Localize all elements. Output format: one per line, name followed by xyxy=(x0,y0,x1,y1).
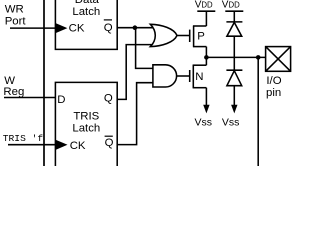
wire N source to VSS arrow xyxy=(205,88,207,106)
svg-text:Q: Q xyxy=(105,137,114,149)
svg-text:D: D xyxy=(57,94,65,106)
wire P drain to output node xyxy=(205,47,207,58)
svg-text:pin: pin xyxy=(266,87,281,99)
wire diode D1 to rail crossing to diode D2 xyxy=(233,36,235,70)
transistor Q1 P-MOSFET xyxy=(190,26,207,47)
diode D1 triangle xyxy=(227,22,242,36)
VDD rail 1 xyxy=(197,10,215,12)
wire WR Port to CK xyxy=(10,27,55,29)
svg-text:N: N xyxy=(195,71,203,83)
svg-text:I/O: I/O xyxy=(266,75,281,87)
wire W Reg to D xyxy=(4,97,55,99)
diode D1 cathode bar xyxy=(226,21,242,23)
wire P source to VDD xyxy=(205,11,207,26)
junction dot output node xyxy=(204,55,209,60)
output rail to I/O pin xyxy=(206,56,265,58)
svg-text:P: P xyxy=(197,31,205,43)
clock wedge data latch CK xyxy=(55,23,67,34)
latch U2 TRIS Latch box (bottom cut off) xyxy=(55,82,117,166)
wire TRIS Q-bar to AND gate xyxy=(117,83,155,145)
svg-text:Vss: Vss xyxy=(195,116,213,128)
wire N drain to output node xyxy=(205,57,207,65)
svg-text:TRIS 'f: TRIS 'f xyxy=(3,133,44,144)
junction dot pin branch node xyxy=(256,55,261,60)
svg-text:Latch: Latch xyxy=(72,122,100,134)
diode D2 triangle xyxy=(227,71,242,86)
wire OR to P gate xyxy=(177,35,190,37)
svg-text:WR: WR xyxy=(5,4,24,16)
AND gate G2 xyxy=(153,65,177,87)
svg-text:Vss: Vss xyxy=(222,116,240,128)
svg-text:W: W xyxy=(4,75,15,87)
overline of TRIS latch Q-bar xyxy=(105,135,113,137)
overline of data latch Q-bar xyxy=(104,19,112,21)
diode D2 cathode bar xyxy=(226,69,242,71)
wire pin node to input buffer (cut off) xyxy=(257,57,259,166)
junction dot A (Q-bar node) xyxy=(133,25,138,30)
svg-text:Q: Q xyxy=(104,93,113,105)
svg-text:CK: CK xyxy=(70,140,86,152)
latch U1 Data Latch box (top cut off) xyxy=(55,0,117,49)
svg-text:CK: CK xyxy=(69,22,85,34)
wire TRIS f to CK xyxy=(8,144,55,146)
svg-text:Latch: Latch xyxy=(72,6,100,18)
wire VDD rail 2 to diode D1 xyxy=(233,11,235,22)
I/O pin symbol box xyxy=(266,47,291,72)
VSS arrowhead left xyxy=(203,105,209,114)
svg-text:Q: Q xyxy=(104,22,113,34)
data bus line xyxy=(43,0,45,166)
OR gate G1 xyxy=(150,24,177,46)
wire AND to N gate xyxy=(177,75,190,77)
clock wedge TRIS latch CK xyxy=(55,140,68,151)
svg-text:Reg: Reg xyxy=(3,86,24,98)
svg-text:VDD: VDD xyxy=(222,0,240,10)
wire data Q-bar to OR gate xyxy=(117,27,158,29)
wire TRIS Q to OR gate xyxy=(117,45,158,100)
wire diode D2 to VSS arrow xyxy=(233,86,235,106)
transistor Q2 N-MOSFET xyxy=(190,65,207,88)
VSS arrowhead right xyxy=(231,105,237,114)
svg-text:TRIS: TRIS xyxy=(73,111,99,123)
svg-text:Port: Port xyxy=(5,15,27,27)
svg-text:Data: Data xyxy=(75,0,100,6)
wire Q-bar down to AND gate xyxy=(136,28,155,69)
svg-text:VDD: VDD xyxy=(195,0,213,10)
VDD rail 2 xyxy=(225,10,243,12)
